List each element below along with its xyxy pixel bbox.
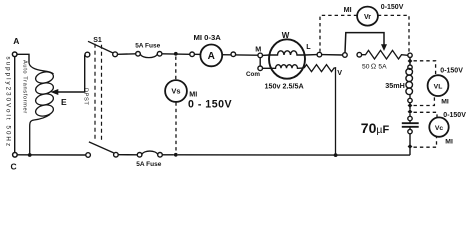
inductor bottom terminal <box>408 98 412 102</box>
svg-text:Com: Com <box>246 71 260 78</box>
svg-text:A: A <box>208 51 215 62</box>
junction circle wiper branch <box>343 53 348 58</box>
junction transformer bottom <box>28 153 32 157</box>
inductor top terminal <box>408 65 412 69</box>
switch S1 bottom pole <box>86 142 118 157</box>
junction V wire bottom <box>334 153 338 157</box>
svg-text:5A Fuse: 5A Fuse <box>136 161 161 168</box>
switch S1 top pole <box>85 37 118 57</box>
voltmeter Vr <box>344 4 404 26</box>
svg-text:0 - 150V: 0 - 150V <box>188 99 232 111</box>
svg-text:70µF: 70µF <box>361 120 390 136</box>
svg-text:MI: MI <box>344 5 352 14</box>
capacitor top terminal <box>408 116 412 120</box>
right branch top segment <box>409 58 411 66</box>
svg-text:MI: MI <box>441 99 449 106</box>
dashed lead Vs to bottom wire <box>175 102 177 152</box>
svg-text:C: C <box>11 162 17 172</box>
svg-text:V: V <box>337 68 342 77</box>
svg-text:Auto Transformer: Auto Transformer <box>22 60 28 114</box>
pressure coil <box>269 65 303 69</box>
wire A to transformer top <box>17 54 29 62</box>
svg-text:supply230Volt 50Hz: supply230Volt 50Hz <box>5 57 12 149</box>
wire left vertical A to C <box>14 57 16 153</box>
junction diamond Vc top <box>408 109 413 114</box>
current coil <box>269 51 305 55</box>
ammeter A <box>190 33 258 66</box>
auto transformer winding <box>29 63 54 156</box>
pressure coil series resistor <box>304 65 336 155</box>
capacitor bottom terminal <box>409 127 411 130</box>
rheostat 50 ohm 5A <box>357 50 408 70</box>
voltmeter VL <box>428 67 464 105</box>
junction circle rheostat right <box>408 53 412 57</box>
svg-text:DPST: DPST <box>83 88 89 105</box>
svg-text:MI: MI <box>189 90 197 99</box>
wattmeter W <box>265 31 306 91</box>
wire L to wiper junction <box>322 54 343 56</box>
junction diamond Vc bottom <box>408 144 413 149</box>
rheostat wiper branch <box>345 33 387 53</box>
terminal L wire <box>305 42 322 57</box>
svg-text:150v 2.5/5A: 150v 2.5/5A <box>265 82 304 91</box>
svg-text:Vs: Vs <box>171 87 180 96</box>
terminal Com <box>246 58 269 78</box>
svg-text:5A Fuse: 5A Fuse <box>135 42 160 49</box>
dashed lead to Vs <box>175 57 177 80</box>
bottom wire middle <box>178 154 410 156</box>
DPST link dashed <box>95 44 102 142</box>
wiper arrow E <box>51 55 85 107</box>
svg-text:35mH: 35mH <box>385 81 405 90</box>
wire capacitor to bottom <box>409 134 411 155</box>
svg-text:Vc: Vc <box>435 125 444 132</box>
svg-text:M: M <box>255 45 261 54</box>
svg-text:E: E <box>61 97 67 107</box>
wire switch to fuse (top) <box>118 53 136 56</box>
dashed leads VL <box>414 61 436 106</box>
fuse F2 5A (bottom) <box>136 151 162 168</box>
svg-text:S1: S1 <box>93 37 102 44</box>
bottom wire C to switch <box>17 154 86 156</box>
svg-text:VL: VL <box>434 83 443 90</box>
svg-text:0-150V: 0-150V <box>381 4 404 11</box>
voltmeter Vs <box>165 80 232 110</box>
svg-text:L: L <box>306 42 311 51</box>
wire fuse to ammeter <box>162 53 190 56</box>
terminal M <box>255 45 269 58</box>
junction Vs bottom tap <box>174 153 178 157</box>
node A <box>12 36 19 56</box>
dashed leads Vc <box>414 112 438 147</box>
capacitor 70uF plates <box>402 123 419 127</box>
svg-text:MI: MI <box>445 138 453 145</box>
svg-text:50: 50 <box>362 64 370 71</box>
junction Vs top tap <box>174 52 178 56</box>
svg-text:0-150V: 0-150V <box>443 112 466 119</box>
svg-text:Ω: Ω <box>371 63 376 70</box>
node C <box>11 153 18 172</box>
inductor 35mH <box>406 69 413 99</box>
svg-text:Vr: Vr <box>364 14 371 21</box>
svg-text:0-150V: 0-150V <box>440 67 463 74</box>
svg-text:A: A <box>13 36 19 46</box>
dashed leads Vr <box>320 15 409 52</box>
junction diamond VL top <box>408 59 413 64</box>
svg-text:W: W <box>282 31 290 40</box>
svg-text:5A: 5A <box>378 64 387 71</box>
svg-text:MI 0-3A: MI 0-3A <box>194 33 222 42</box>
voltmeter Vc <box>429 112 466 145</box>
fuse F1 5A (top) <box>135 42 162 57</box>
junction diamond VL bottom <box>409 103 411 110</box>
wire switch to fuse (bottom) <box>118 154 137 156</box>
